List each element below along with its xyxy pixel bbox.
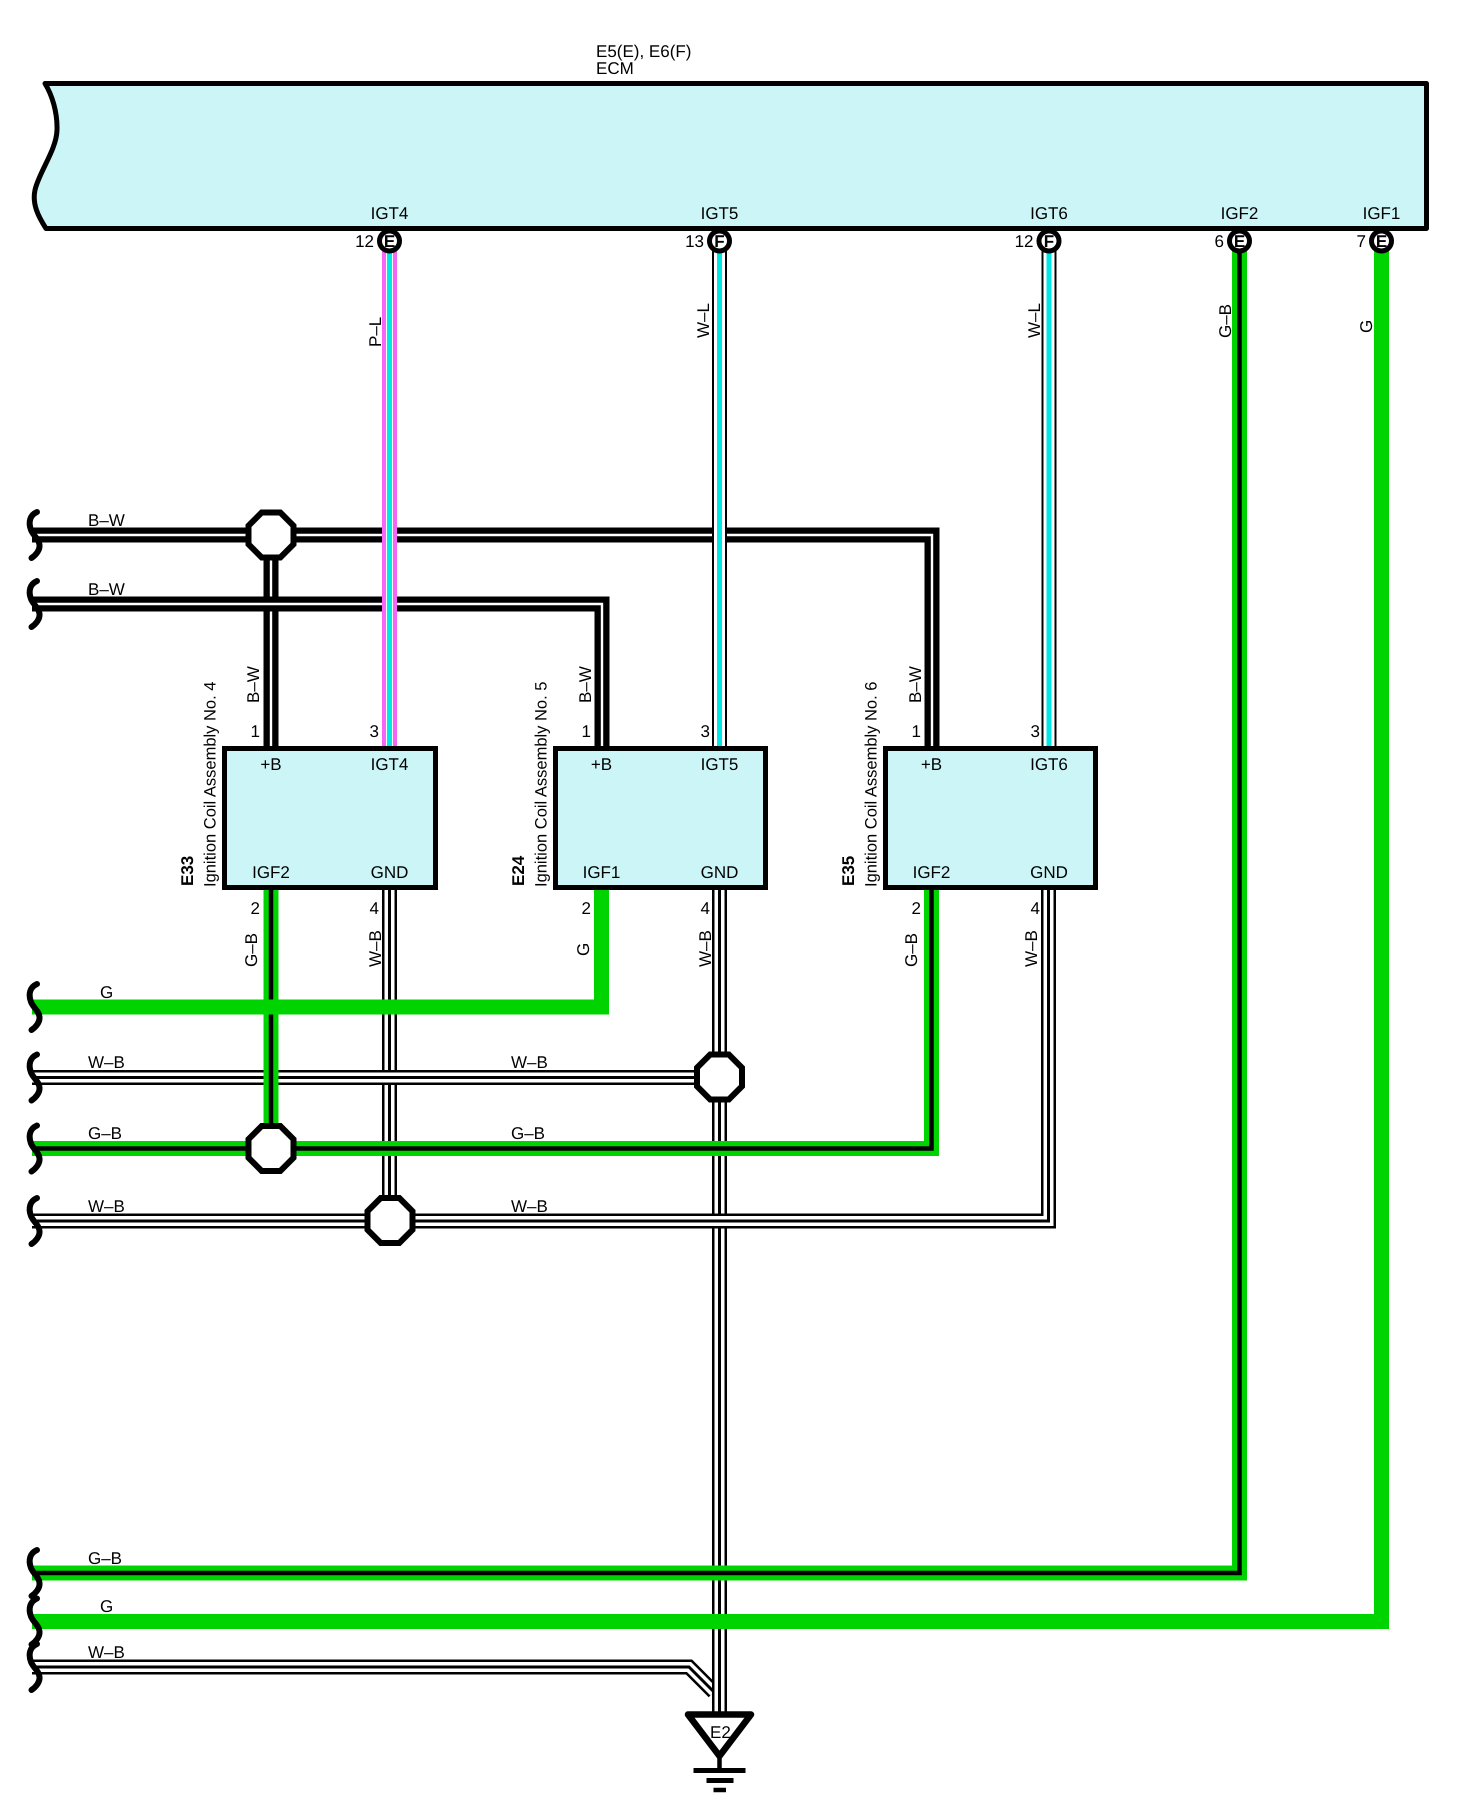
ECM box E5(E),E6(F) bbox=[34, 84, 1426, 229]
rotated label Ignition Coil Assembly No.4 bbox=[202, 682, 220, 887]
rotated wire label W-B below E33 pin4 bbox=[366, 930, 385, 967]
svg-text:2: 2 bbox=[912, 899, 921, 918]
svg-text:1: 1 bbox=[582, 722, 591, 741]
svg-text:E: E bbox=[384, 232, 395, 251]
label G-B line 2 bbox=[88, 1549, 122, 1568]
svg-text:B–W: B–W bbox=[88, 580, 125, 599]
svg-text:IGT4: IGT4 bbox=[371, 204, 409, 223]
torn-edge mark W-B line 2 bbox=[30, 1198, 40, 1244]
rotated designator E33 bbox=[178, 856, 197, 886]
torn-edge mark W-B line 3 bbox=[30, 1644, 40, 1690]
svg-text:W–B: W–B bbox=[366, 930, 385, 967]
svg-text:12: 12 bbox=[1015, 232, 1034, 251]
svg-text:W–B: W–B bbox=[511, 1197, 548, 1216]
svg-text:Ignition Coil Assembly No. 6: Ignition Coil Assembly No. 6 bbox=[863, 682, 881, 887]
rotated wire label G-B below E33 pin2 bbox=[242, 933, 261, 967]
svg-text:IGF2: IGF2 bbox=[1221, 204, 1259, 223]
svg-text:P–L: P–L bbox=[366, 317, 385, 347]
svg-text:F: F bbox=[1044, 232, 1054, 251]
wire G line 1 (left up to box5 pin2) bbox=[32, 888, 602, 1007]
wire G-B from ECM IGF2 down and left to bottom edge bbox=[32, 250, 1240, 1573]
ECM pin 6 connector E (IGF2) bbox=[1215, 204, 1259, 251]
svg-text:3: 3 bbox=[701, 722, 710, 741]
svg-text:+B: +B bbox=[260, 755, 281, 774]
wire B-W feed 1 (left to box6 pin1, with drop to box4 at octagon) bbox=[32, 535, 932, 750]
wire W-B line 1 (left to junction at box5 GND drop) bbox=[32, 1070, 720, 1085]
svg-text:G: G bbox=[574, 943, 593, 956]
rotated wire label G below E24 pin2 bbox=[574, 943, 593, 956]
rotated wire label G-B (IGF2) bbox=[1216, 304, 1235, 338]
coil box pin numbers E33 bbox=[251, 722, 379, 918]
ground symbol E2 bbox=[688, 1715, 751, 1791]
svg-text:G–B: G–B bbox=[242, 933, 261, 967]
wire W-B from box4 pin4 down to junction on W-B line 2 bbox=[382, 888, 397, 1221]
svg-text:E33: E33 bbox=[178, 856, 197, 886]
svg-text:7: 7 bbox=[1357, 232, 1366, 251]
rotated wire label B-W at E24 bbox=[576, 666, 595, 703]
torn-edge mark B-W line 1 bbox=[30, 512, 40, 558]
svg-text:4: 4 bbox=[370, 899, 379, 918]
svg-text:IGT5: IGT5 bbox=[701, 204, 739, 223]
svg-text:IGF2: IGF2 bbox=[252, 863, 290, 882]
svg-text:G: G bbox=[100, 983, 113, 1002]
svg-text:3: 3 bbox=[370, 722, 379, 741]
svg-text:Ignition Coil Assembly No. 4: Ignition Coil Assembly No. 4 bbox=[202, 682, 220, 887]
svg-text:IGT4: IGT4 bbox=[371, 755, 409, 774]
ECM pin 13 connector F (IGT5) bbox=[685, 204, 738, 251]
svg-text:B–W: B–W bbox=[906, 666, 925, 703]
ECM pin 7 connector E (IGF1) bbox=[1357, 204, 1401, 251]
wire B-W drop from junction to box4 pin1 bbox=[264, 545, 279, 750]
wire B-W feed 2 (left to box5 pin1) bbox=[32, 604, 602, 750]
svg-text:IGT5: IGT5 bbox=[701, 755, 739, 774]
svg-text:W–L: W–L bbox=[694, 303, 713, 338]
svg-text:Ignition Coil Assembly No. 5: Ignition Coil Assembly No. 5 bbox=[533, 682, 551, 887]
label W-B line 3 bbox=[88, 1643, 125, 1662]
svg-text:3: 3 bbox=[1031, 722, 1040, 741]
label B-W line 2 bbox=[88, 580, 125, 599]
torn-edge mark W-B line 1 bbox=[30, 1055, 40, 1101]
svg-text:12: 12 bbox=[355, 232, 374, 251]
label G line 2 bbox=[100, 1597, 113, 1616]
svg-text:13: 13 bbox=[685, 232, 704, 251]
rotated label Ignition Coil Assembly No.6 bbox=[863, 682, 881, 887]
label G-B line 1 mid bbox=[511, 1124, 545, 1143]
wire P-L from ECM IGT4 to box4 pin3 bbox=[382, 250, 397, 748]
svg-text:ECM: ECM bbox=[596, 59, 634, 78]
svg-text:W–L: W–L bbox=[1025, 303, 1044, 338]
svg-text:IGT6: IGT6 bbox=[1030, 755, 1068, 774]
svg-text:W–B: W–B bbox=[511, 1053, 548, 1072]
junction octagon J3 on G-B line 1 bbox=[249, 1126, 294, 1171]
svg-text:E24: E24 bbox=[509, 855, 528, 886]
svg-text:E: E bbox=[1234, 232, 1245, 251]
rotated designator E24 bbox=[509, 855, 528, 886]
svg-text:W–B: W–B bbox=[696, 930, 715, 967]
rotated wire label W-L (IGT6) bbox=[1025, 303, 1044, 338]
rotated wire label P-L bbox=[366, 317, 385, 347]
wire W-B line 2 (left through junction up to box6 pin4) bbox=[32, 888, 1049, 1221]
svg-text:2: 2 bbox=[251, 899, 260, 918]
svg-text:W–B: W–B bbox=[88, 1053, 125, 1072]
svg-text:IGF2: IGF2 bbox=[913, 863, 951, 882]
coil box E35 Ignition Coil Assembly No.6 bbox=[886, 749, 1096, 888]
ECM title text bbox=[596, 42, 691, 78]
junction octagon J2 on W-B line 1 bbox=[697, 1055, 742, 1100]
wire W-L from ECM IGT5 to box5 pin3 bbox=[712, 250, 727, 748]
torn-edge mark B-W line 2 bbox=[30, 581, 40, 627]
svg-text:G–B: G–B bbox=[88, 1124, 122, 1143]
label G-B line 1 left bbox=[88, 1124, 122, 1143]
svg-text:6: 6 bbox=[1215, 232, 1224, 251]
svg-text:E2: E2 bbox=[710, 1723, 731, 1742]
torn-edge mark G line 1 bbox=[30, 984, 40, 1030]
svg-text:B–W: B–W bbox=[88, 511, 125, 530]
label G line 1 bbox=[100, 983, 113, 1002]
rotated wire label B-W at E33 bbox=[244, 666, 263, 703]
svg-text:W–B: W–B bbox=[88, 1643, 125, 1662]
svg-text:IGF1: IGF1 bbox=[583, 863, 621, 882]
coil box pin numbers E35 bbox=[912, 722, 1040, 918]
coil box pin numbers E24 bbox=[582, 722, 710, 918]
svg-text:G–B: G–B bbox=[1216, 304, 1235, 338]
coil box E33 Ignition Coil Assembly No.4 bbox=[225, 749, 436, 888]
rotated wire label W-B below E35 pin4 bbox=[1022, 930, 1041, 967]
svg-text:B–W: B–W bbox=[244, 666, 263, 703]
svg-text:E35: E35 bbox=[839, 856, 858, 886]
svg-text:1: 1 bbox=[912, 722, 921, 741]
svg-text:2: 2 bbox=[582, 899, 591, 918]
svg-text:1: 1 bbox=[251, 722, 260, 741]
svg-text:G–B: G–B bbox=[902, 933, 921, 967]
rotated wire label W-B below E24 pin4 bbox=[696, 930, 715, 967]
wire W-L from ECM IGT6 to box6 pin3 bbox=[1042, 250, 1057, 748]
wire W-B from box5 pin4 down through junction to ground E2 bbox=[712, 888, 727, 1712]
svg-text:F: F bbox=[714, 232, 724, 251]
rotated wire label G (IGF1) bbox=[1357, 320, 1376, 333]
label W-B line 1 left bbox=[88, 1053, 125, 1072]
svg-text:B–W: B–W bbox=[576, 666, 595, 703]
svg-text:GND: GND bbox=[371, 863, 409, 882]
rotated wire label G-B below E35 pin2 bbox=[902, 933, 921, 967]
label B-W line 1 bbox=[88, 511, 125, 530]
svg-text:IGT6: IGT6 bbox=[1030, 204, 1068, 223]
torn-edge mark G-B line 1 bbox=[30, 1126, 40, 1172]
svg-text:W–B: W–B bbox=[88, 1197, 125, 1216]
torn-edge mark G line 2 bbox=[30, 1599, 40, 1645]
rotated label Ignition Coil Assembly No.5 bbox=[533, 682, 551, 887]
svg-text:GND: GND bbox=[1030, 863, 1068, 882]
svg-text:E: E bbox=[1376, 232, 1387, 251]
svg-text:G–B: G–B bbox=[511, 1124, 545, 1143]
label W-B line 2 mid bbox=[511, 1197, 548, 1216]
svg-text:G: G bbox=[1357, 320, 1376, 333]
svg-text:G: G bbox=[100, 1597, 113, 1616]
wire G-B from box4 pin2 down to junction on G-B line 1 bbox=[264, 888, 279, 1149]
rotated designator E35 bbox=[839, 856, 858, 886]
svg-text:4: 4 bbox=[1031, 899, 1040, 918]
svg-text:G–B: G–B bbox=[88, 1549, 122, 1568]
svg-text:+B: +B bbox=[921, 755, 942, 774]
svg-text:GND: GND bbox=[701, 863, 739, 882]
svg-text:IGF1: IGF1 bbox=[1363, 204, 1401, 223]
ECM pin 12 connector E (IGT4) bbox=[355, 204, 408, 251]
wire W-B line 3 (left, diagonal joining ground run) bbox=[32, 1667, 714, 1692]
wire G from ECM IGF1 down and left to bottom edge bbox=[32, 250, 1382, 1622]
label W-B line 2 left bbox=[88, 1197, 125, 1216]
junction octagon J4 on W-B line 2 bbox=[368, 1198, 413, 1243]
label W-B line 1 mid bbox=[511, 1053, 548, 1072]
rotated wire label W-L (IGT5) bbox=[694, 303, 713, 338]
torn-edge mark G-B line 2 bbox=[30, 1550, 40, 1596]
svg-text:4: 4 bbox=[701, 899, 710, 918]
junction octagon J1 on B-W line 1 bbox=[249, 513, 294, 558]
svg-text:+B: +B bbox=[591, 755, 612, 774]
wire G-B line 1 (left through junction up to box6 pin2) bbox=[32, 888, 932, 1149]
coil box E24 Ignition Coil Assembly No.5 bbox=[556, 749, 766, 888]
svg-text:W–B: W–B bbox=[1022, 930, 1041, 967]
ECM pin 12 connector F (IGT6) bbox=[1015, 204, 1068, 251]
rotated wire label B-W at E35 bbox=[906, 666, 925, 703]
